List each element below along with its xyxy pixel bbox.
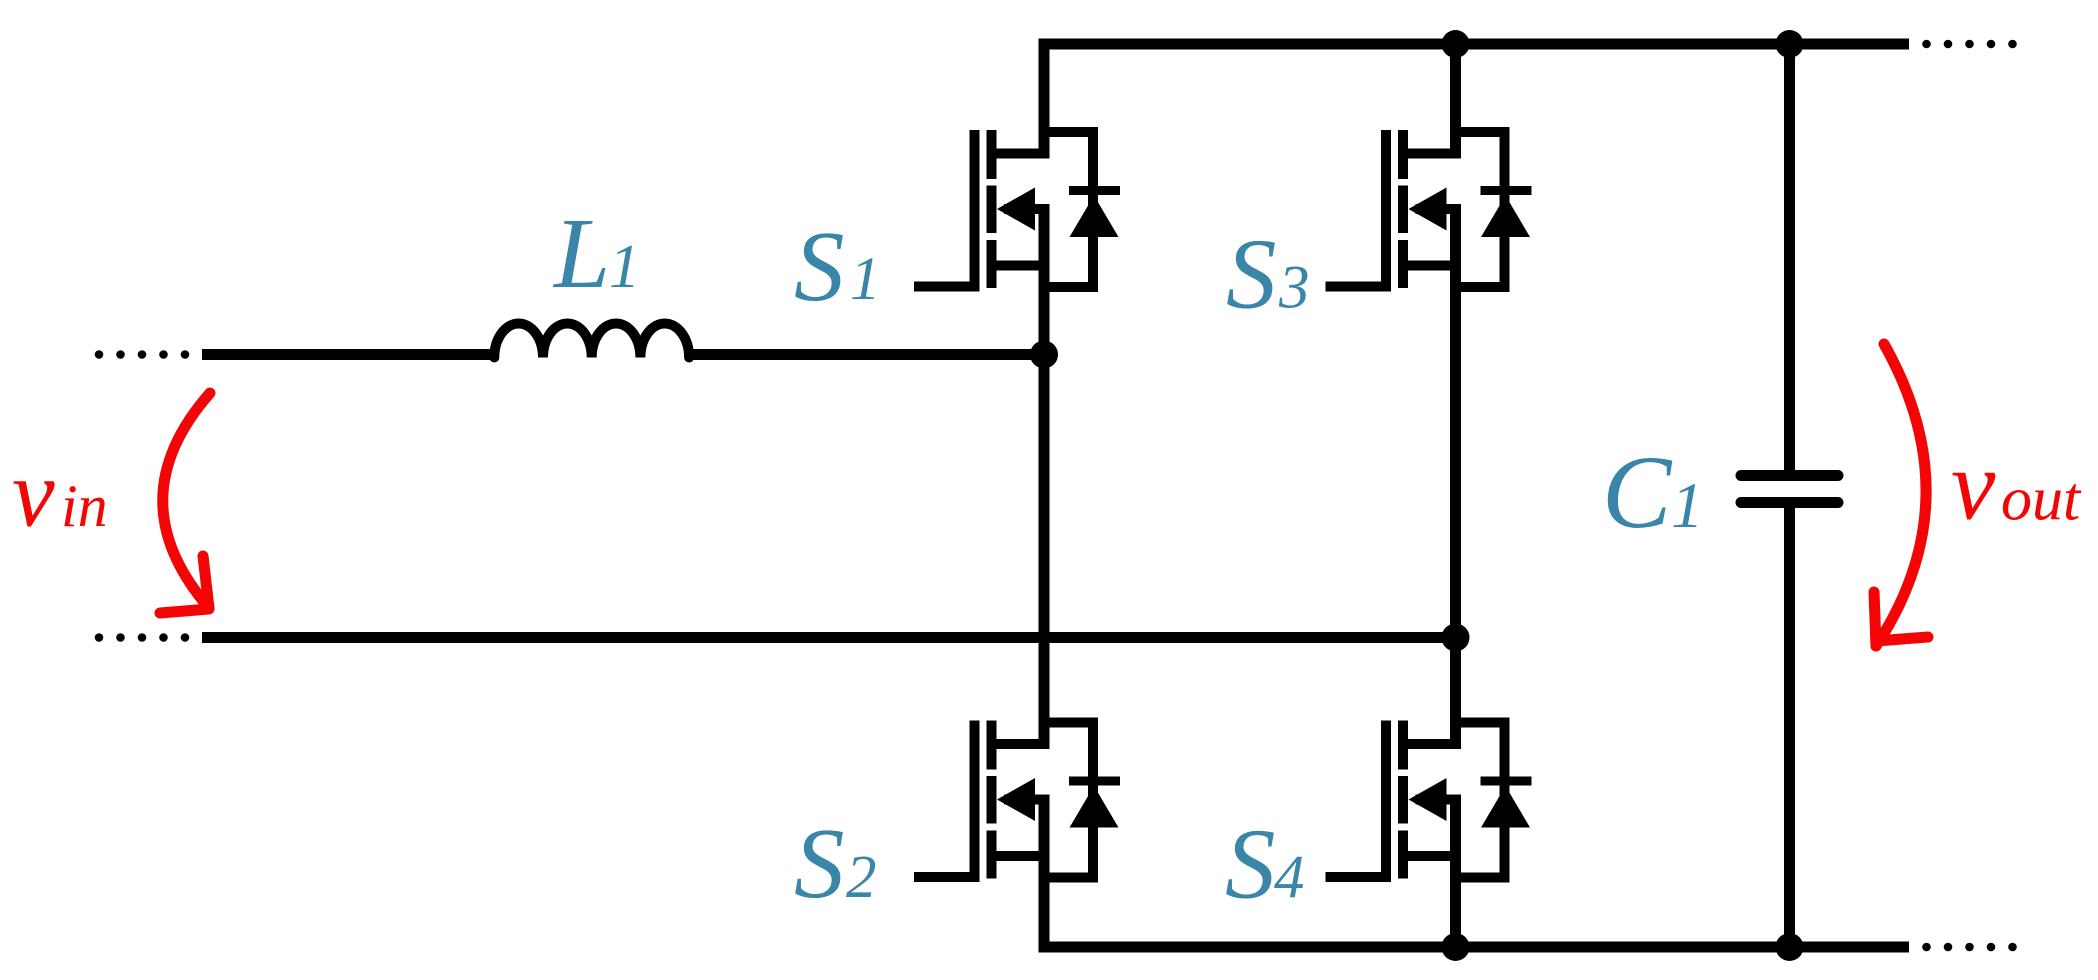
transistor S1: body-diode cathode bar	[1069, 186, 1120, 195]
svg-text:in: in	[61, 473, 108, 539]
wire: S3 drain lead from top rail	[1450, 44, 1461, 159]
wire: top rail with S1 drain lead corner	[1044, 44, 1909, 159]
transistor S3: gate bar	[1381, 130, 1391, 292]
svg-text:out: out	[2001, 466, 2082, 534]
annotation: v_in polarity curved arrow	[163, 393, 210, 608]
transistor S1: body line	[1004, 204, 1046, 214]
capacitor C1 bottom plate	[1741, 497, 1838, 508]
transistor S3: source connector	[1403, 261, 1458, 271]
transistor S3: body line	[1416, 204, 1458, 214]
svg-text:1: 1	[850, 246, 881, 313]
wire: bottom rail with S2 source lead corner	[1044, 795, 1909, 948]
svg-text:S: S	[794, 807, 845, 919]
transistor S1: gate lead	[914, 282, 980, 292]
svg-text:1: 1	[609, 233, 640, 301]
svg-text:2: 2	[846, 844, 877, 911]
wire: C1 top lead	[1784, 44, 1795, 471]
wire: input top wire dotted stub (left)	[95, 350, 104, 359]
transistor S4: drain connector	[1403, 739, 1458, 749]
transistor S3: drain connector	[1403, 149, 1458, 159]
node: S3/S4 midpoint junction	[1442, 624, 1470, 652]
wire: input top wire (inductor to S1/S2 midpoint)	[687, 349, 1044, 360]
svg-text:S: S	[1226, 218, 1277, 330]
svg-text:C: C	[1602, 435, 1673, 550]
transistor S3: body-diode branch wire	[1454, 132, 1505, 287]
transistor S1: drain connector	[992, 149, 1047, 159]
wire: bottom rail dotted stub (right)	[1922, 943, 1931, 952]
wire: S1 source to S2 drain (phase node A leg)	[1039, 204, 1050, 749]
svg-text:S: S	[1225, 808, 1276, 920]
transistor S2: body arrow	[997, 778, 1035, 821]
node: top rail / S3 drain	[1442, 30, 1470, 58]
wire: S4 source lead to bottom rail	[1450, 795, 1461, 948]
transistor S2: body-diode cathode bar	[1069, 777, 1120, 786]
transistor S2: channel bar (3 dashes)	[987, 721, 997, 879]
transistor S1: body arrow	[997, 188, 1035, 231]
wire: S3 source to S4 drain (phase node B leg)	[1450, 204, 1461, 749]
transistor S3: body-diode cathode bar	[1481, 186, 1532, 195]
transistor S4: body-diode triangle	[1481, 786, 1530, 828]
svg-text:1: 1	[1671, 470, 1704, 542]
transistor S3: body arrow	[1409, 188, 1447, 231]
node: bottom rail / C1	[1776, 933, 1804, 961]
transistor S4: body-diode branch wire	[1454, 723, 1505, 878]
transistor S3: channel bar (3 dashes)	[1398, 130, 1408, 288]
svg-text:3: 3	[1278, 255, 1310, 322]
transistor S2: body-diode branch wire	[1042, 723, 1093, 878]
annotation: v_out polarity curved arrow	[1876, 344, 1926, 646]
transistor S2: drain connector	[992, 739, 1047, 749]
transistor S1: source connector	[992, 261, 1047, 271]
svg-text:4: 4	[1274, 845, 1305, 912]
transistor S3: gate lead	[1326, 282, 1392, 292]
svg-text:v: v	[1951, 430, 1996, 541]
transistor S4: channel bar (3 dashes)	[1398, 721, 1408, 879]
wire: input bottom wire dotted stub (left)	[95, 633, 104, 642]
transistor S1: channel bar (3 dashes)	[987, 130, 997, 288]
transistor S2: source connector	[992, 851, 1047, 861]
capacitor C1 top plate	[1741, 470, 1838, 481]
wire: input bottom wire	[202, 632, 1456, 643]
transistor S4: body line	[1416, 795, 1458, 805]
svg-text:S: S	[794, 210, 845, 322]
transistor S4: body-diode cathode bar	[1481, 777, 1532, 786]
wire: top rail dotted stub (right)	[1922, 40, 1931, 49]
transistor S4: body arrow	[1409, 778, 1447, 821]
transistor S1: gate bar	[970, 130, 980, 292]
transistor S2: body line	[1004, 795, 1046, 805]
transistor S2: gate bar	[970, 721, 980, 883]
transistor S4: gate lead	[1326, 872, 1392, 882]
transistor S4: source connector	[1403, 851, 1458, 861]
node: top rail / C1	[1776, 30, 1804, 58]
transistor S2: body-diode triangle	[1070, 786, 1119, 828]
node: S1/S2 midpoint junction	[1030, 341, 1058, 369]
inductor L1	[494, 324, 689, 358]
wire: input top wire (left of inductor)	[202, 349, 496, 360]
transistor S2: gate lead	[914, 872, 980, 882]
svg-text:L: L	[552, 197, 610, 309]
node: bottom rail / S4 source	[1442, 933, 1470, 961]
transistor S1: body-diode triangle	[1070, 196, 1119, 238]
transistor S1: body-diode branch wire	[1042, 132, 1093, 287]
svg-text:v: v	[12, 440, 55, 547]
transistor S3: body-diode triangle	[1481, 196, 1530, 238]
transistor S4: gate bar	[1381, 721, 1391, 883]
wire: C1 bottom lead	[1784, 507, 1795, 947]
